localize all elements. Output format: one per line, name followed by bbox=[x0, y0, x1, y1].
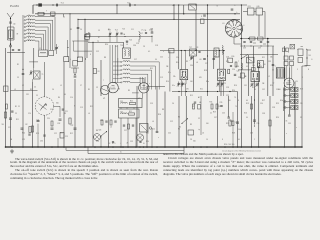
svg-text:L2: L2 bbox=[192, 106, 194, 108]
svg-text:S1e: S1e bbox=[172, 85, 175, 87]
svg-text:R25: R25 bbox=[129, 111, 132, 113]
svg-text:14: 14 bbox=[206, 139, 208, 141]
svg-text:L2: L2 bbox=[28, 18, 30, 20]
svg-text:C22: C22 bbox=[71, 125, 74, 127]
svg-text:E: E bbox=[312, 59, 313, 61]
svg-text:C38: C38 bbox=[243, 48, 246, 50]
svg-text:C33: C33 bbox=[130, 141, 133, 143]
svg-text:2M: 2M bbox=[262, 83, 265, 85]
svg-text:C25: C25 bbox=[96, 141, 99, 143]
svg-text:R7: R7 bbox=[98, 37, 100, 39]
svg-text:L4: L4 bbox=[152, 121, 154, 123]
svg-text:R6: R6 bbox=[178, 117, 180, 119]
svg-text:470: 470 bbox=[199, 77, 202, 79]
svg-text:R5: R5 bbox=[128, 90, 130, 92]
svg-text:C31: C31 bbox=[218, 106, 221, 108]
svg-text:C36: C36 bbox=[133, 45, 136, 47]
svg-text:s: s bbox=[288, 52, 289, 54]
svg-text:U: U bbox=[201, 16, 202, 18]
svg-text:C40: C40 bbox=[238, 129, 241, 131]
svg-text:C24: C24 bbox=[176, 57, 179, 59]
svg-text:C28: C28 bbox=[100, 120, 103, 122]
svg-text:2: 2 bbox=[254, 139, 255, 141]
svg-text:x: x bbox=[286, 133, 287, 135]
svg-text:UL: UL bbox=[143, 143, 145, 145]
svg-text:Pu.M4: Pu.M4 bbox=[10, 4, 19, 8]
svg-text:28: 28 bbox=[197, 47, 199, 49]
svg-text:35: 35 bbox=[286, 121, 288, 123]
svg-text:C20: C20 bbox=[47, 118, 50, 120]
svg-text:C4: C4 bbox=[80, 29, 82, 31]
svg-text:V3: V3 bbox=[296, 81, 298, 83]
svg-text:R8: R8 bbox=[64, 113, 66, 115]
svg-text:R4: R4 bbox=[108, 29, 110, 31]
svg-text:A: A bbox=[306, 48, 308, 51]
svg-text:V1: V1 bbox=[103, 98, 105, 100]
svg-text:R20: R20 bbox=[270, 85, 273, 87]
svg-text:L7: L7 bbox=[141, 30, 143, 32]
svg-text:R16: R16 bbox=[158, 114, 161, 116]
svg-text:L6: L6 bbox=[202, 133, 204, 135]
svg-text:C33: C33 bbox=[214, 57, 217, 59]
svg-text:250: 250 bbox=[300, 103, 303, 105]
svg-text:v: v bbox=[296, 127, 297, 129]
svg-text:R24: R24 bbox=[130, 101, 133, 103]
svg-text:L8: L8 bbox=[28, 39, 30, 41]
svg-text:C2: C2 bbox=[34, 87, 36, 89]
svg-text:R13: R13 bbox=[300, 89, 303, 91]
svg-text:C1: C1 bbox=[52, 16, 54, 18]
svg-text:C34: C34 bbox=[120, 112, 123, 114]
svg-text:5: 5 bbox=[270, 139, 271, 141]
svg-text:C20: C20 bbox=[28, 113, 31, 115]
svg-text:C21: C21 bbox=[65, 111, 68, 113]
svg-text:C2: C2 bbox=[22, 85, 24, 87]
svg-text:C26: C26 bbox=[237, 71, 240, 73]
svg-text:40: 40 bbox=[246, 100, 248, 102]
svg-text:R18: R18 bbox=[252, 87, 255, 89]
svg-text:2C: 2C bbox=[120, 152, 122, 154]
svg-text:R11: R11 bbox=[146, 133, 149, 135]
svg-text:k: k bbox=[235, 5, 236, 7]
svg-text:R3: R3 bbox=[30, 89, 32, 91]
svg-text:7.5: 7.5 bbox=[235, 106, 237, 108]
svg-text:R16: R16 bbox=[234, 85, 237, 87]
svg-text:R13: R13 bbox=[230, 121, 233, 123]
svg-text:R12: R12 bbox=[58, 123, 61, 125]
svg-text:R15: R15 bbox=[210, 102, 213, 104]
svg-text:500: 500 bbox=[206, 123, 209, 125]
svg-text:R21: R21 bbox=[262, 57, 265, 59]
svg-text:A1: A1 bbox=[198, 96, 200, 99]
svg-text:C39: C39 bbox=[258, 48, 261, 50]
svg-text:L4: L4 bbox=[110, 127, 112, 129]
svg-text:C19: C19 bbox=[150, 103, 153, 105]
svg-text:C18: C18 bbox=[155, 45, 158, 47]
svg-text:470: 470 bbox=[186, 89, 189, 91]
svg-text:C1: C1 bbox=[210, 113, 212, 115]
svg-text:+: + bbox=[120, 143, 121, 145]
svg-text:R3: R3 bbox=[190, 124, 192, 126]
svg-text:8: 8 bbox=[90, 54, 91, 56]
svg-text:C30: C30 bbox=[252, 65, 255, 67]
svg-text:S1e: S1e bbox=[200, 89, 203, 91]
svg-text:C2: C2 bbox=[198, 118, 200, 120]
svg-text:U2: U2 bbox=[109, 143, 111, 145]
svg-text:R10: R10 bbox=[226, 61, 229, 63]
svg-text:7.5: 7.5 bbox=[234, 97, 236, 99]
svg-text:40: 40 bbox=[64, 94, 66, 96]
svg-text:8: 8 bbox=[74, 106, 75, 108]
svg-text:TC7: TC7 bbox=[189, 47, 192, 49]
svg-text:+: + bbox=[287, 96, 288, 98]
svg-text:R1: R1 bbox=[17, 64, 19, 66]
svg-text:L6: L6 bbox=[196, 62, 198, 64]
svg-text:7: 7 bbox=[46, 10, 47, 12]
svg-text:28: 28 bbox=[190, 139, 192, 141]
svg-text:C30: C30 bbox=[190, 65, 193, 67]
svg-text:R23: R23 bbox=[276, 103, 279, 105]
svg-text:C33: C33 bbox=[120, 101, 123, 103]
svg-text:+: + bbox=[287, 102, 288, 104]
svg-text:t: t bbox=[168, 56, 169, 59]
svg-text:6: 6 bbox=[70, 59, 71, 61]
svg-text:R3: R3 bbox=[70, 29, 72, 31]
svg-text:C19: C19 bbox=[226, 57, 229, 59]
svg-text:R17: R17 bbox=[112, 143, 115, 145]
svg-text:L6: L6 bbox=[88, 113, 90, 115]
svg-text:R14: R14 bbox=[22, 133, 25, 135]
svg-text:C19: C19 bbox=[160, 77, 163, 79]
svg-text:C36: C36 bbox=[276, 89, 279, 91]
svg-text:x: x bbox=[149, 83, 150, 85]
svg-text:50: 50 bbox=[155, 59, 157, 61]
svg-text:C7: C7 bbox=[80, 85, 82, 87]
svg-text:C9: C9 bbox=[96, 87, 98, 89]
svg-text:C5: C5 bbox=[17, 77, 19, 79]
svg-text:C12: C12 bbox=[96, 51, 99, 53]
svg-text:C35: C35 bbox=[288, 123, 291, 125]
svg-text:L5: L5 bbox=[60, 85, 62, 87]
svg-text:C25: C25 bbox=[286, 83, 289, 85]
svg-text:C12: C12 bbox=[152, 129, 155, 131]
svg-text:R14: R14 bbox=[166, 81, 169, 83]
svg-text:TC3: TC3 bbox=[122, 29, 125, 31]
svg-text:C17: C17 bbox=[124, 130, 127, 132]
svg-text:R8: R8 bbox=[162, 109, 164, 111]
svg-text:TC2: TC2 bbox=[127, 3, 130, 5]
svg-text:T1: T1 bbox=[42, 74, 44, 76]
svg-text:300: 300 bbox=[56, 103, 59, 105]
svg-text:R2: R2 bbox=[26, 124, 28, 126]
svg-text:0.1: 0.1 bbox=[148, 51, 150, 53]
svg-text:T2: T2 bbox=[97, 41, 99, 43]
svg-text:E: E bbox=[308, 69, 309, 71]
svg-text:2M: 2M bbox=[166, 66, 169, 68]
svg-text:28: 28 bbox=[143, 46, 145, 48]
svg-text:C35: C35 bbox=[257, 123, 260, 125]
svg-text:C2: C2 bbox=[63, 17, 65, 19]
svg-text:1: 1 bbox=[244, 57, 245, 59]
svg-text:L7: L7 bbox=[28, 36, 30, 38]
svg-text:C26: C26 bbox=[232, 69, 235, 71]
svg-text:50: 50 bbox=[264, 64, 266, 66]
svg-text:R22: R22 bbox=[226, 123, 229, 125]
svg-text:S2: S2 bbox=[179, 127, 181, 129]
svg-text:300: 300 bbox=[228, 100, 231, 102]
svg-text:R20: R20 bbox=[105, 44, 108, 46]
svg-text:50: 50 bbox=[254, 89, 256, 91]
svg-text:R15: R15 bbox=[190, 95, 193, 97]
svg-text:C40: C40 bbox=[257, 6, 260, 8]
svg-text:R11: R11 bbox=[16, 119, 19, 121]
svg-text:C16: C16 bbox=[136, 43, 139, 45]
svg-text:C27: C27 bbox=[205, 63, 208, 65]
svg-text:+: + bbox=[287, 90, 288, 92]
svg-text:R19: R19 bbox=[246, 103, 249, 105]
svg-text:R11: R11 bbox=[150, 68, 153, 70]
svg-text:1M: 1M bbox=[309, 55, 312, 57]
svg-text:6: 6 bbox=[244, 25, 245, 27]
svg-text:T2: T2 bbox=[224, 83, 226, 85]
svg-text:2B: 2B bbox=[127, 143, 129, 145]
svg-text:C31: C31 bbox=[244, 85, 247, 87]
svg-text:L2: L2 bbox=[268, 76, 270, 78]
svg-text:R3: R3 bbox=[118, 89, 120, 91]
svg-text:R17: R17 bbox=[90, 106, 93, 108]
svg-text:C14: C14 bbox=[144, 30, 147, 32]
svg-text:C32: C32 bbox=[262, 89, 265, 91]
svg-text:C31: C31 bbox=[26, 94, 29, 96]
svg-text:C: C bbox=[275, 66, 277, 68]
svg-text:C34: C34 bbox=[260, 103, 263, 105]
svg-text:C23: C23 bbox=[22, 139, 25, 141]
svg-text:C15: C15 bbox=[150, 29, 153, 31]
svg-text:C4: C4 bbox=[244, 76, 246, 78]
svg-text:S1c: S1c bbox=[60, 133, 63, 135]
svg-text:S1b: S1b bbox=[280, 100, 283, 102]
svg-text:L3: L3 bbox=[14, 89, 16, 91]
svg-text:C21: C21 bbox=[8, 127, 11, 129]
svg-text:Ae: Ae bbox=[14, 23, 16, 26]
svg-text:8: 8 bbox=[222, 139, 223, 141]
svg-text:R5: R5 bbox=[88, 33, 90, 35]
svg-text:L6: L6 bbox=[28, 32, 30, 34]
svg-text:C8: C8 bbox=[98, 71, 100, 73]
svg-text:R21: R21 bbox=[248, 6, 251, 8]
svg-text:C28: C28 bbox=[272, 107, 275, 109]
svg-text:s: s bbox=[158, 137, 159, 139]
svg-text:R10: R10 bbox=[232, 56, 235, 58]
svg-text:L.S: L.S bbox=[222, 23, 224, 25]
svg-text:TC1: TC1 bbox=[61, 3, 64, 5]
svg-text:R26: R26 bbox=[276, 117, 279, 119]
svg-text:L1: L1 bbox=[28, 15, 30, 17]
svg-text:C17: C17 bbox=[50, 109, 53, 111]
svg-text:1A: 1A bbox=[123, 33, 125, 36]
svg-text:R17: R17 bbox=[262, 100, 265, 102]
svg-text:R9: R9 bbox=[186, 61, 188, 63]
svg-text:R5: R5 bbox=[178, 129, 180, 131]
svg-text:m: m bbox=[217, 6, 219, 8]
svg-text:500: 500 bbox=[193, 141, 196, 143]
svg-text:S2b: S2b bbox=[99, 130, 102, 132]
svg-text:50: 50 bbox=[246, 117, 248, 119]
svg-text:R20: R20 bbox=[232, 90, 235, 92]
svg-text:R6: R6 bbox=[58, 97, 60, 99]
svg-text:+: + bbox=[115, 143, 116, 145]
svg-text:R8: R8 bbox=[104, 57, 106, 59]
svg-text:C12: C12 bbox=[170, 121, 173, 123]
svg-text:R13: R13 bbox=[36, 133, 39, 135]
svg-text:3: 3 bbox=[297, 69, 298, 71]
svg-text:TC4: TC4 bbox=[115, 30, 118, 32]
svg-text:25k: 25k bbox=[270, 57, 273, 59]
svg-text:8: 8 bbox=[238, 100, 239, 102]
svg-text:C22: C22 bbox=[54, 133, 57, 135]
svg-text:R6: R6 bbox=[260, 66, 262, 68]
svg-text:R14: R14 bbox=[176, 62, 179, 64]
svg-text:C36: C36 bbox=[238, 77, 241, 79]
svg-text:R19: R19 bbox=[213, 112, 216, 114]
svg-text:L3: L3 bbox=[28, 22, 30, 24]
svg-text:C13: C13 bbox=[80, 107, 83, 109]
svg-text:C29: C29 bbox=[220, 102, 223, 104]
svg-text:x: x bbox=[163, 51, 164, 53]
svg-text:C4: C4 bbox=[172, 103, 174, 105]
svg-text:1B: 1B bbox=[10, 139, 12, 141]
svg-text:C5: C5 bbox=[36, 95, 38, 97]
svg-text:C22: C22 bbox=[160, 57, 163, 59]
svg-text:S1c: S1c bbox=[168, 72, 171, 74]
svg-text:u: u bbox=[297, 49, 298, 51]
svg-text:TC6: TC6 bbox=[120, 45, 123, 47]
svg-text:R26 C44 350: R26 C44 350 bbox=[224, 144, 234, 146]
svg-text:L4: L4 bbox=[28, 25, 30, 27]
svg-text:12: 12 bbox=[273, 83, 275, 85]
svg-text:C6: C6 bbox=[52, 89, 54, 91]
svg-text:L4: L4 bbox=[126, 44, 128, 46]
svg-text:R18: R18 bbox=[232, 133, 235, 135]
svg-text:R5: R5 bbox=[88, 89, 90, 91]
svg-text:C28: C28 bbox=[226, 87, 229, 89]
svg-text:R24: R24 bbox=[146, 141, 149, 143]
svg-text:S1e: S1e bbox=[206, 81, 209, 83]
svg-text:C11: C11 bbox=[131, 29, 134, 31]
svg-text:x: x bbox=[103, 80, 104, 82]
svg-text:W: W bbox=[17, 34, 19, 36]
svg-text:C22: C22 bbox=[168, 133, 171, 135]
svg-text:100: 100 bbox=[190, 81, 193, 83]
svg-text:7: 7 bbox=[238, 61, 239, 63]
svg-text:C38: C38 bbox=[262, 113, 265, 115]
svg-text:L10: L10 bbox=[199, 59, 202, 61]
svg-text:S1b: S1b bbox=[244, 113, 247, 115]
svg-text:C25: C25 bbox=[222, 113, 225, 115]
svg-text:R8: R8 bbox=[96, 130, 98, 132]
svg-text:TC6: TC6 bbox=[129, 40, 132, 42]
svg-text:25k: 25k bbox=[173, 76, 176, 78]
svg-text:C30: C30 bbox=[40, 141, 43, 143]
svg-text:0.1: 0.1 bbox=[246, 66, 248, 68]
svg-text:9: 9 bbox=[302, 77, 303, 79]
svg-text:C37: C37 bbox=[214, 117, 217, 119]
svg-text:C1: C1 bbox=[18, 106, 20, 108]
svg-text:L7: L7 bbox=[141, 33, 143, 35]
svg-text:R16: R16 bbox=[236, 66, 239, 68]
svg-text:L5: L5 bbox=[28, 28, 30, 30]
svg-text:C33: C33 bbox=[250, 133, 253, 135]
svg-text:35: 35 bbox=[300, 117, 302, 119]
svg-text:R1: R1 bbox=[15, 106, 17, 108]
svg-text:t.p: t.p bbox=[198, 128, 200, 131]
svg-text:R18: R18 bbox=[204, 70, 207, 72]
svg-text:L8: L8 bbox=[116, 46, 118, 48]
svg-text:1B: 1B bbox=[2, 124, 5, 126]
svg-text:C3: C3 bbox=[15, 113, 17, 115]
svg-text:40: 40 bbox=[238, 139, 240, 141]
svg-text:+: + bbox=[287, 108, 288, 110]
svg-text:C17: C17 bbox=[134, 59, 137, 61]
svg-text:C39: C39 bbox=[268, 61, 271, 63]
svg-text:C29: C29 bbox=[226, 95, 229, 97]
svg-text:L9: L9 bbox=[40, 48, 42, 50]
svg-text:C3: C3 bbox=[98, 30, 100, 32]
svg-text:R12: R12 bbox=[70, 133, 73, 135]
svg-text:C10: C10 bbox=[70, 97, 73, 99]
svg-text:C23: C23 bbox=[65, 136, 68, 138]
